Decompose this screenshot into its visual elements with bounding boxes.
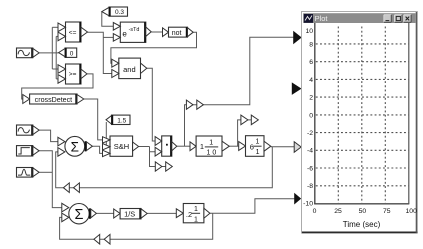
svg-text:0: 0 xyxy=(313,208,317,215)
svg-text:4: 4 xyxy=(309,77,313,84)
svg-text:1: 1 xyxy=(194,206,198,213)
svg-text:Σ: Σ xyxy=(75,207,84,223)
svg-text:0.3: 0.3 xyxy=(115,9,124,16)
svg-text:50: 50 xyxy=(359,208,367,215)
svg-text:0: 0 xyxy=(70,50,74,57)
svg-text:-2: -2 xyxy=(307,130,313,137)
svg-text:Plot: Plot xyxy=(315,14,329,23)
svg-text:1.5: 1.5 xyxy=(117,117,126,124)
svg-text:Time (sec): Time (sec) xyxy=(343,220,381,229)
svg-text:1 0: 1 0 xyxy=(207,149,217,156)
svg-text:<=: <= xyxy=(69,29,77,36)
svg-text:1: 1 xyxy=(255,139,259,146)
svg-text:6: 6 xyxy=(309,59,313,66)
svg-text:1/S: 1/S xyxy=(124,210,135,219)
svg-text:crossDetect: crossDetect xyxy=(35,96,72,104)
svg-text:75: 75 xyxy=(383,208,391,215)
svg-text:-sTd: -sTd xyxy=(129,27,140,33)
svg-text:25: 25 xyxy=(334,208,342,215)
svg-text:S&H: S&H xyxy=(114,142,129,151)
svg-text:>=: >= xyxy=(69,71,77,78)
svg-text:not: not xyxy=(172,30,182,37)
svg-text:1: 1 xyxy=(256,149,260,156)
svg-text:2: 2 xyxy=(309,95,313,102)
svg-text:100: 100 xyxy=(406,208,418,215)
svg-text:Σ: Σ xyxy=(71,139,79,154)
svg-text:0: 0 xyxy=(309,112,313,119)
svg-text:1: 1 xyxy=(194,216,198,223)
svg-text:8: 8 xyxy=(309,41,313,48)
svg-text:10: 10 xyxy=(305,28,313,35)
svg-text:-8: -8 xyxy=(307,183,313,190)
svg-text:1: 1 xyxy=(209,139,213,146)
svg-text:.2: .2 xyxy=(186,210,192,219)
svg-text:-4: -4 xyxy=(307,148,313,155)
svg-text:and: and xyxy=(123,65,136,74)
svg-text:-10: -10 xyxy=(303,201,313,208)
svg-text:1: 1 xyxy=(200,142,204,151)
svg-text:6: 6 xyxy=(250,142,254,151)
svg-text:e: e xyxy=(122,30,127,39)
svg-text:-6: -6 xyxy=(307,166,313,173)
